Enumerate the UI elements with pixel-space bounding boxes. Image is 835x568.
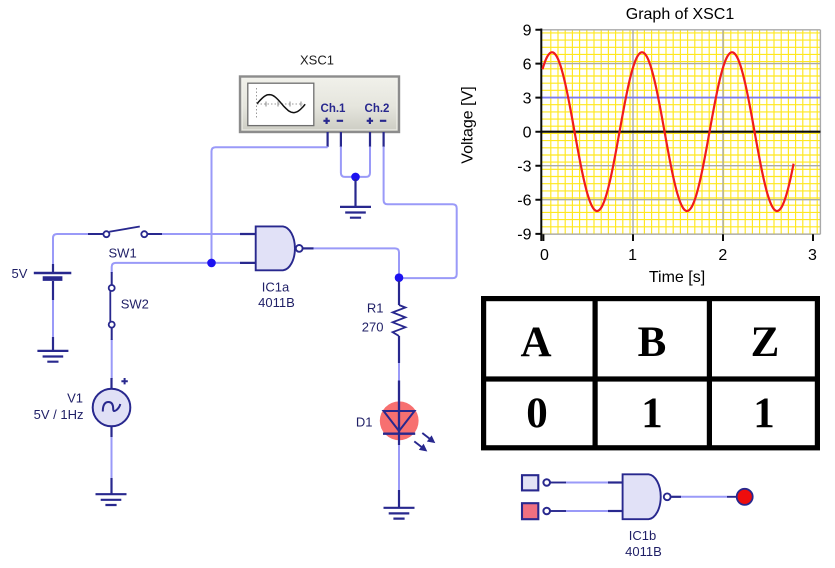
NAND gate IC1a — [240, 226, 314, 270]
IC1b input pin circle A — [543, 479, 550, 486]
svg-text:2: 2 — [718, 247, 727, 264]
wire scope Ch.2+ to scope ground node — [358, 147, 370, 177]
oscilloscope terminal pins — [328, 132, 384, 147]
wire battery top to SW1 — [53, 234, 89, 266]
truth table frame — [481, 296, 820, 450]
IC1b output indicator lamp (red, high) — [737, 489, 753, 505]
wire IC1b input B — [550, 510, 623, 512]
svg-text:SW1: SW1 — [109, 246, 137, 261]
wire V1 to ground — [111, 436, 113, 479]
wire R1 to LED light segment — [398, 362, 400, 382]
gate IC1a label — [258, 280, 295, 311]
svg-text:6: 6 — [523, 56, 532, 73]
oscilloscope +/- terminal marks — [323, 118, 386, 124]
graph title — [626, 6, 735, 23]
oscilloscope XSC1 label — [300, 53, 334, 68]
truth table header B — [638, 319, 667, 366]
ground below LED — [384, 508, 415, 519]
graph x tick labels — [540, 247, 817, 264]
resistor R1 — [393, 281, 406, 363]
oscilloscope screen with mini sine — [248, 83, 314, 125]
LED cathode wire to ground — [398, 434, 400, 508]
ground below scope — [340, 179, 371, 218]
svg-text:0: 0 — [526, 390, 548, 437]
svg-text:270: 270 — [362, 320, 384, 335]
IC1b input B indicator square (high, red) — [522, 503, 538, 519]
truth table header A — [520, 319, 551, 366]
graph y-axis title Voltage [V] — [460, 86, 477, 163]
svg-text:Z: Z — [751, 319, 780, 366]
battery label 5V — [12, 266, 28, 281]
svg-text:Graph of XSC1: Graph of XSC1 — [626, 6, 735, 23]
NAND gate IC1b — [623, 474, 671, 519]
truth table value B=1 — [641, 390, 663, 437]
battery 5V — [34, 264, 72, 300]
wire scope Ch.1+ down-left to node A — [212, 147, 328, 260]
svg-text:9: 9 — [523, 23, 532, 40]
svg-text:V1: V1 — [67, 391, 83, 406]
ground below V1 — [96, 478, 127, 505]
wire SW2 bottom to V1 — [111, 339, 113, 379]
svg-text:Time [s]: Time [s] — [649, 269, 705, 286]
wire IC1b input A — [550, 482, 623, 484]
truth table header Z — [751, 319, 780, 366]
svg-text:-3: -3 — [517, 159, 531, 176]
svg-text:5V / 1Hz: 5V / 1Hz — [34, 407, 84, 422]
truth table value A=0 — [526, 390, 548, 437]
svg-text:A: A — [520, 319, 551, 366]
wire scope Ch.1- to scope ground node — [341, 147, 353, 177]
gate IC1b labels — [625, 528, 662, 559]
ground below battery — [37, 337, 68, 362]
LED D1 red glow — [380, 401, 419, 440]
svg-text:0: 0 — [540, 247, 549, 264]
graph x-axis title Time [s] — [649, 269, 705, 286]
svg-text:XSC1: XSC1 — [300, 53, 334, 68]
graph channel B blue trace at 3V — [542, 97, 821, 99]
svg-text:SW2: SW2 — [121, 297, 149, 312]
switch SW1 label — [109, 246, 137, 261]
switch SW2 label — [121, 297, 149, 312]
AC source V1 — [93, 378, 131, 437]
graph major gridlines — [541, 30, 820, 234]
svg-text:Voltage [V]: Voltage [V] — [460, 86, 477, 163]
graph zero axis black — [541, 131, 820, 133]
svg-text:Ch.1: Ch.1 — [321, 103, 347, 115]
node Z junction dot (gate out / Ch2- / R1) — [395, 273, 404, 282]
svg-text:0: 0 — [523, 125, 532, 142]
LED D1 symbol — [383, 381, 415, 434]
svg-text:R1: R1 — [367, 301, 384, 316]
svg-text:3: 3 — [523, 90, 532, 107]
svg-text:1: 1 — [753, 390, 775, 437]
truth table value Z=1 — [753, 390, 775, 437]
svg-text:B: B — [638, 319, 667, 366]
wire scope Ch.2- to node Z — [384, 147, 457, 279]
svg-text:4011B: 4011B — [258, 295, 295, 310]
svg-text:D1: D1 — [356, 415, 373, 430]
AC source V1 label — [34, 391, 84, 422]
LED D1 label — [356, 415, 373, 430]
node A junction dot (Ch1+ / gate input B) — [207, 259, 216, 268]
wire IC1b output — [671, 496, 737, 498]
wire battery to ground — [52, 299, 54, 338]
IC1b input pin circle B — [543, 508, 550, 515]
svg-text:5V: 5V — [12, 266, 28, 281]
resistor R1 labels — [362, 301, 384, 335]
wire SW1 to gate input A — [161, 233, 241, 235]
graph y tick labels — [517, 23, 531, 244]
wire LED to ground light segment — [398, 444, 400, 491]
switch SW1 — [88, 227, 162, 238]
graph y-axis with ticks — [535, 29, 813, 242]
oscilloscope Ch.1 label — [321, 103, 390, 115]
wire gate output to node Z — [313, 248, 399, 273]
svg-text:IC1b: IC1b — [629, 528, 656, 543]
svg-text:3: 3 — [808, 247, 817, 264]
svg-text:Ch.2: Ch.2 — [365, 103, 390, 115]
svg-text:1: 1 — [628, 247, 637, 264]
switch SW2 — [109, 272, 115, 340]
scope ground junction dot — [351, 173, 360, 182]
graph red sine trace — [543, 52, 794, 211]
svg-text:1: 1 — [641, 390, 663, 437]
IC1b input A indicator square (low) — [522, 475, 538, 490]
svg-text:4011B: 4011B — [625, 544, 662, 559]
graph plot area background — [541, 30, 820, 234]
svg-text:-6: -6 — [517, 193, 531, 210]
wire SW2 to gate input B — [112, 263, 241, 273]
svg-text:IC1a: IC1a — [262, 280, 290, 295]
svg-text:-9: -9 — [517, 227, 531, 244]
LED D1 emission arrows — [412, 430, 438, 455]
